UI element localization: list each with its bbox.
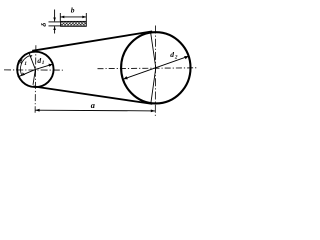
radial to upper tangent point, big pulley bbox=[151, 33, 156, 68]
b dimension extension lines bbox=[59, 13, 61, 21]
d2 diameter line bbox=[124, 56, 189, 79]
delta dimension: upper arrow bbox=[54, 10, 56, 22]
radial to lower tangent point, big pulley bbox=[151, 68, 156, 103]
centerline: big pulley vertical bbox=[154, 26, 156, 117]
delta extension ticks bbox=[49, 21, 61, 23]
radial to lower tangent point, small pulley bbox=[33, 69, 35, 84]
belt cross-section rectangle with hatch bbox=[61, 21, 87, 26]
a dimension line bbox=[35, 109, 155, 112]
svg-text:a: a bbox=[91, 101, 95, 110]
svg-text:1: 1 bbox=[24, 61, 27, 67]
svg-text:d: d bbox=[170, 50, 174, 59]
pulley 1 (small, left) bbox=[17, 52, 53, 87]
centerline: small pulley horizontal bbox=[4, 69, 64, 71]
svg-text:b: b bbox=[71, 6, 75, 15]
radial to upper tangent point, small pulley bbox=[29, 52, 36, 69]
svg-text:2: 2 bbox=[174, 54, 178, 60]
svg-text:d: d bbox=[37, 56, 41, 65]
b dimension line with arrows bbox=[60, 16, 86, 18]
belt upper run bbox=[32, 31, 152, 50]
radial to lower-left, small pulley bbox=[18, 69, 36, 77]
wrap-angle arc alpha1 with arrows bbox=[20, 56, 29, 76]
d1 radius arrow bbox=[35, 64, 52, 69]
centerline: small pulley vertical bbox=[34, 45, 37, 113]
centerline: big pulley horizontal bbox=[98, 67, 199, 70]
svg-text:δ: δ bbox=[39, 23, 48, 27]
belt lower run bbox=[33, 86, 152, 104]
pulley 2 (big, right) bbox=[121, 32, 190, 103]
delta dimension: lower arrow bbox=[54, 26, 56, 33]
svg-text:1: 1 bbox=[42, 60, 45, 66]
